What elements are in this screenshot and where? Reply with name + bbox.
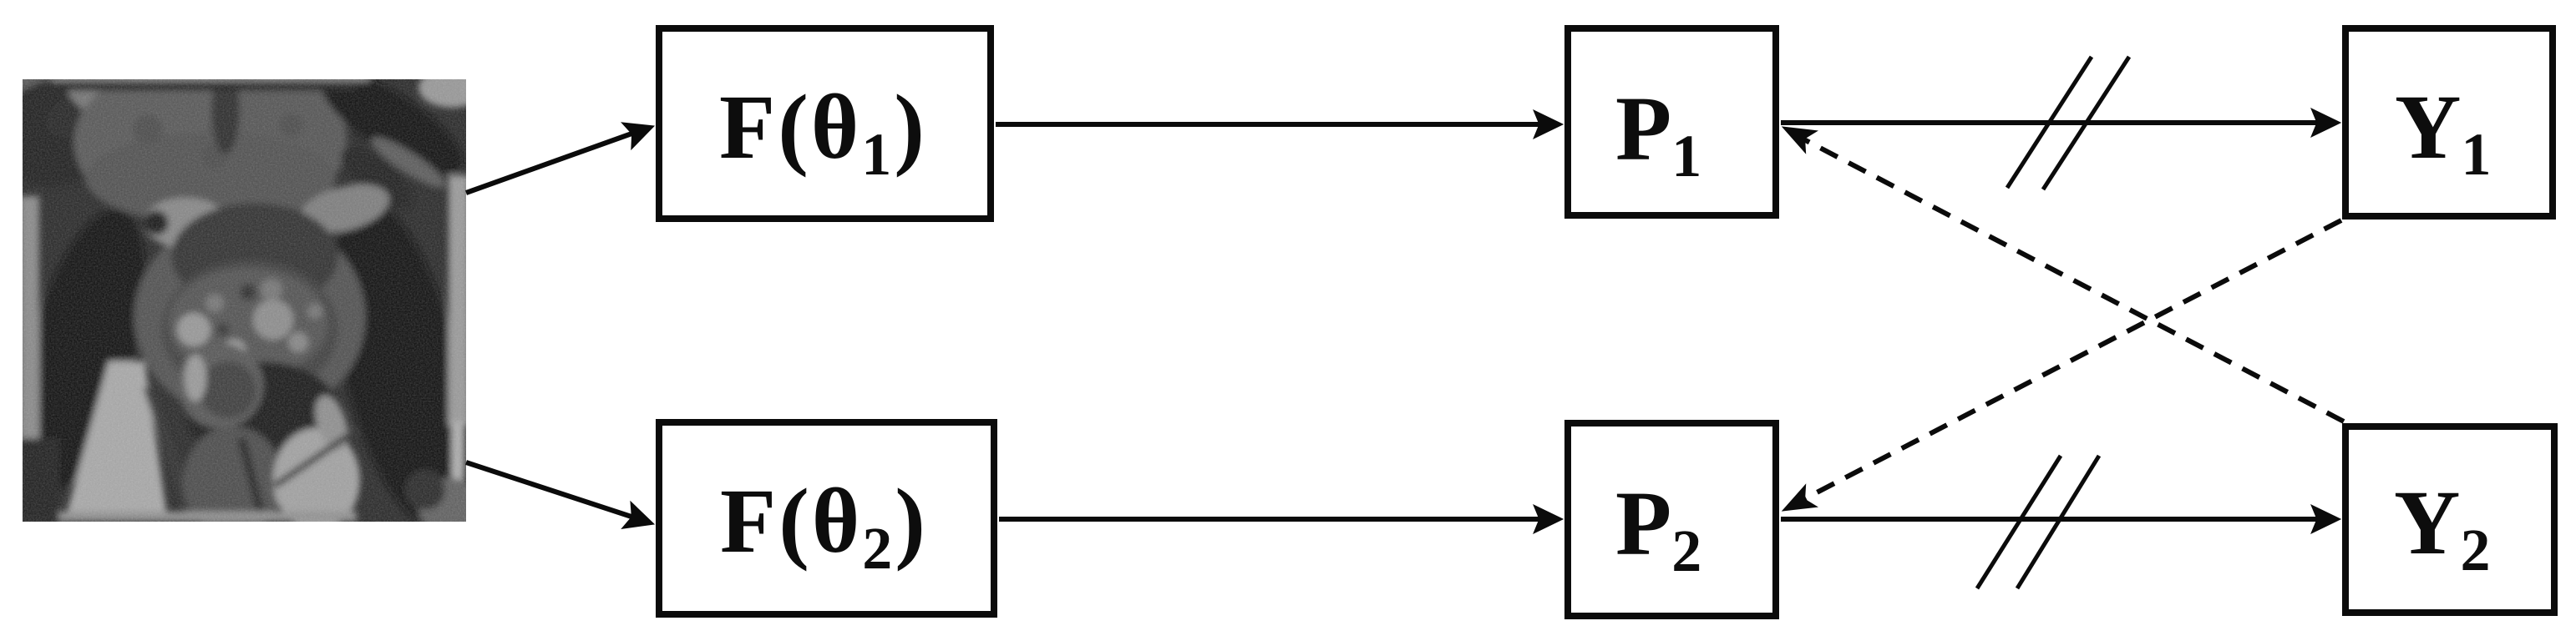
label Y2 xyxy=(2394,522,2490,550)
dark region below prostate xyxy=(186,361,340,465)
left obturator muscle xyxy=(0,196,170,505)
dashed arrow Y2 to P1 xyxy=(1798,136,2344,421)
right muscle top band xyxy=(331,134,423,221)
top-left dark blob xyxy=(0,61,145,201)
rectum mass xyxy=(178,343,263,428)
dark center cleft xyxy=(211,68,240,154)
box P1 xyxy=(1564,25,1779,219)
right obturator muscle xyxy=(307,188,493,538)
arrow F(theta2) to P2 xyxy=(999,517,1541,522)
bright right patch xyxy=(273,428,360,532)
top-right corner light xyxy=(418,68,485,108)
gray wedge top-left xyxy=(59,72,132,134)
arrow image to F(theta1) xyxy=(466,132,636,193)
arrow P1 to Y1 xyxy=(1781,120,2320,125)
stop-grad slashes bottom xyxy=(1977,456,2061,588)
bottom-left bright wedge xyxy=(64,361,168,522)
label F(theta1) xyxy=(719,127,927,154)
label P2 xyxy=(1615,523,1701,551)
arrow image to F(theta2) xyxy=(466,462,636,518)
mid-bottom mottled xyxy=(183,426,283,537)
dark streak right of wedge xyxy=(148,386,194,522)
pelvic gray surround xyxy=(134,213,365,421)
dashed arrow Y1 to P2 xyxy=(1798,220,2341,502)
label Y1 xyxy=(2395,127,2491,154)
box P2 xyxy=(1564,420,1779,619)
gray channel xyxy=(367,131,450,195)
left edge strip xyxy=(19,196,39,438)
right edge strip xyxy=(449,175,469,426)
mri input image xyxy=(23,79,466,522)
bottom-right corner gray xyxy=(418,478,482,535)
prostate interior xyxy=(169,268,327,378)
dark divot xyxy=(144,210,169,235)
bottom-left corner dark xyxy=(19,438,59,522)
box Y2 xyxy=(2342,423,2558,616)
prostate dark ring xyxy=(56,81,357,91)
bladder wings xyxy=(144,198,227,248)
top-right dark band xyxy=(307,53,478,192)
arrow F(theta1) to P1 xyxy=(996,122,1541,127)
top-left corner gray notch xyxy=(6,69,56,106)
box F(theta1) xyxy=(656,25,994,222)
arrow P2 to Y2 xyxy=(1781,517,2320,522)
bottom edge light band xyxy=(56,512,357,522)
box F(theta2) xyxy=(656,419,997,618)
central gray mass xyxy=(74,67,271,217)
label F(theta2) xyxy=(720,521,928,548)
box Y1 xyxy=(2342,25,2556,220)
label P1 xyxy=(1615,129,1701,156)
stop-grad slashes top xyxy=(2007,57,2092,188)
